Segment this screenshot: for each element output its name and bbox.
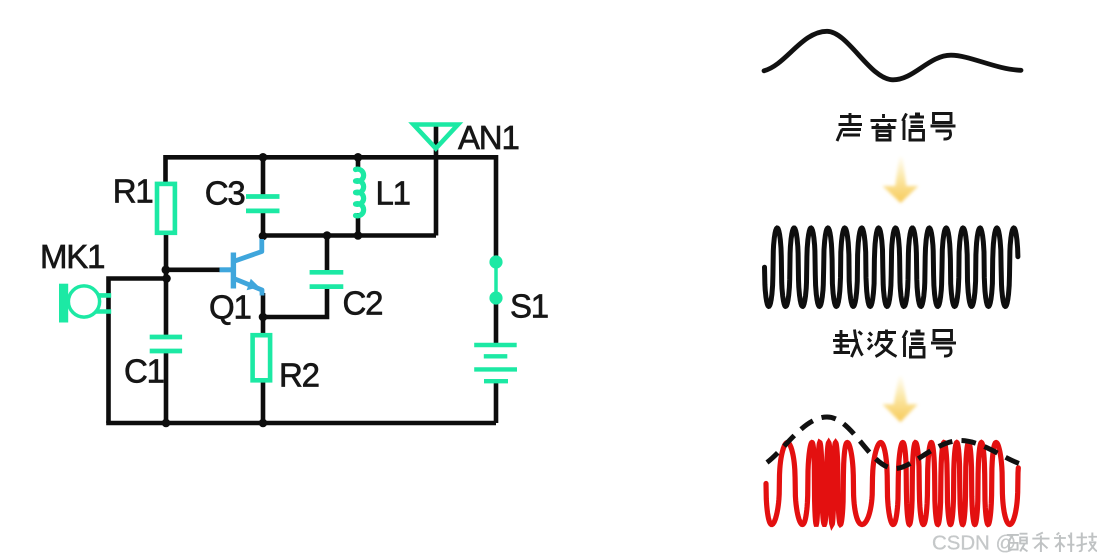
transistor Q1 collector (233, 239, 261, 262)
wire S1 bottom dot to battery top (494, 298, 499, 345)
svg-text:L1: L1 (376, 175, 410, 212)
svg-text:AN1: AN1 (458, 119, 519, 156)
switch S1 connector (494, 262, 498, 298)
svg-text:R1: R1 (113, 173, 153, 210)
wire L1 bottom stub (356, 213, 361, 236)
wire C2 branch lower and emitter rail (263, 286, 327, 317)
node C1 bottom on bottom rail (162, 419, 171, 428)
wire antenna stem (434, 127, 439, 236)
svg-text:CSDN @: CSDN @ (932, 532, 1016, 554)
wire emitter to emitter-rail node (261, 293, 266, 317)
node at R1 bottom / base junction (162, 266, 171, 275)
transistor Q1 emitter (233, 278, 262, 295)
svg-text:C2: C2 (343, 285, 383, 322)
capacitor C2 plates (310, 272, 344, 286)
wire base lead from node to Q1 (166, 267, 220, 272)
wire C1 bottom to bottom rail (164, 353, 169, 424)
svg-text:C3: C3 (205, 175, 245, 212)
battery B1 plates (474, 345, 517, 381)
watermark 硬禾科技 glyphs (1007, 533, 1097, 553)
inductor L1 coil (356, 169, 364, 216)
node emitter / R2 top (259, 313, 268, 322)
wire second rail (tank rail) (263, 233, 436, 238)
label sound-signal (声音信号) (837, 113, 956, 141)
node L1 top on top rail (354, 153, 363, 162)
wire microphone branch: corner and vertical down to bottom rail (109, 279, 167, 424)
wire R2 bottom to bottom rail (261, 381, 266, 423)
wire battery bottom to bottom rail (494, 381, 499, 423)
label carrier-signal (载波信号) (833, 330, 956, 358)
switch S1 top contact (489, 255, 502, 268)
wire emitter node down to R2 (261, 317, 266, 336)
resistor R2 (253, 335, 271, 380)
wire C3 branch upper (261, 157, 266, 197)
svg-text:S1: S1 (510, 288, 548, 325)
resistor R1 (157, 184, 175, 233)
node R2 bottom on bottom rail (259, 419, 268, 428)
switch S1 bottom contact (489, 291, 502, 304)
svg-text:MK1: MK1 (40, 238, 104, 275)
wire C3 branch lower (261, 211, 266, 236)
wire L1 top stub (356, 157, 361, 171)
node C3 top on top rail (259, 153, 268, 162)
sound signal waveform (764, 31, 1021, 80)
microphone MK1 stubs (96, 295, 111, 311)
wire top rail with right branch down to S1 (166, 157, 497, 263)
arrow 2 (carrier to modulated) (882, 376, 917, 422)
arrow 1 (sound to carrier) (883, 157, 919, 203)
wire bottom rail (106, 421, 496, 426)
transistor Q1 base bar (231, 253, 236, 289)
node at mic branch junction (162, 274, 171, 283)
svg-text:R2: R2 (279, 357, 319, 394)
capacitor C1 plates (150, 337, 182, 351)
wire C2 branch upper (325, 236, 330, 272)
microphone MK1 bar (59, 284, 68, 323)
antenna AN1 triangle (414, 125, 459, 149)
node L1 bottom on tank rail (354, 231, 363, 240)
modulated FM signal waveform (red) (766, 443, 1018, 525)
modulating envelope dashed curve (767, 417, 1022, 469)
svg-text:Q1: Q1 (209, 289, 251, 326)
wire R1 bottom through base node down to C1 top (164, 234, 169, 336)
transistor Q1 emitter arrow (247, 279, 260, 290)
microphone MK1 circle (68, 286, 99, 317)
transistor Q1 base lead (220, 267, 232, 272)
node C2 top on tank rail (323, 231, 332, 240)
capacitor C3 plates (246, 197, 280, 211)
carrier signal waveform (765, 228, 1018, 306)
node collector / C3 bottom on tank rail (259, 232, 268, 241)
svg-text:C1: C1 (124, 353, 164, 390)
